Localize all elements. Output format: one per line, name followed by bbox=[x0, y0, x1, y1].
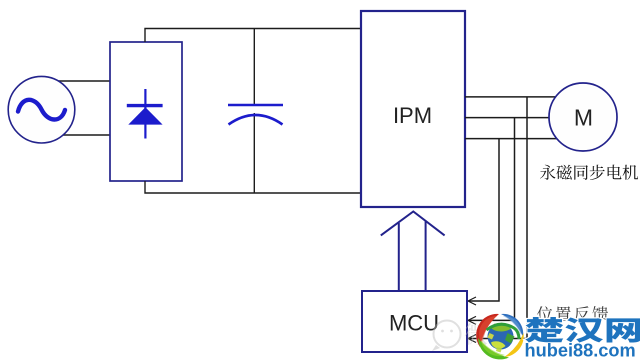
arrowhead into MCU middle bbox=[468, 316, 476, 324]
wire: top DC bus bbox=[145, 29, 362, 43]
svg-text:MCU: MCU bbox=[389, 311, 439, 336]
IPM module U1 bbox=[361, 11, 465, 207]
watermark faint text bbox=[465, 323, 512, 345]
wire: bottom DC bus bbox=[145, 181, 362, 193]
wire: AC source to rectifier top bbox=[57, 80, 111, 82]
MCU U2 bbox=[362, 291, 467, 352]
svg-text:hubei88.com: hubei88.com bbox=[525, 341, 636, 361]
wire: phase W IPM to motor bbox=[465, 138, 557, 140]
wire: AC source to rectifier bottom bbox=[62, 134, 111, 136]
label 位置反馈 bbox=[537, 306, 608, 321]
rectifier bridge bbox=[110, 42, 182, 181]
wire: phase V IPM to motor bbox=[465, 117, 550, 119]
svg-text:M: M bbox=[574, 105, 593, 131]
watermark logo globe bbox=[476, 314, 524, 360]
wire: phase U IPM to motor bbox=[465, 96, 556, 98]
feedback wire from phase W to MCU bbox=[469, 139, 499, 301]
capacitor C1 bbox=[228, 105, 283, 125]
watermark text 楚汉网 bbox=[525, 317, 640, 343]
arrowhead into MCU lower bbox=[468, 335, 476, 343]
control arrow MCU to IPM bbox=[381, 212, 445, 292]
svg-text:IPM: IPM bbox=[393, 103, 432, 128]
wire: capacitor top lead bbox=[253, 29, 255, 105]
wire: capacitor bottom lead bbox=[253, 113, 255, 193]
motor M bbox=[549, 83, 617, 151]
label 永磁同步电机 bbox=[540, 165, 638, 180]
feedback wire from phase V to MCU bbox=[469, 118, 515, 321]
arrowhead into MCU upper bbox=[468, 297, 476, 305]
AC source bbox=[8, 76, 75, 143]
diode D1 bbox=[127, 89, 163, 139]
watermark wechat smiley bbox=[432, 321, 461, 352]
feedback wire from phase U to MCU bbox=[469, 97, 527, 339]
